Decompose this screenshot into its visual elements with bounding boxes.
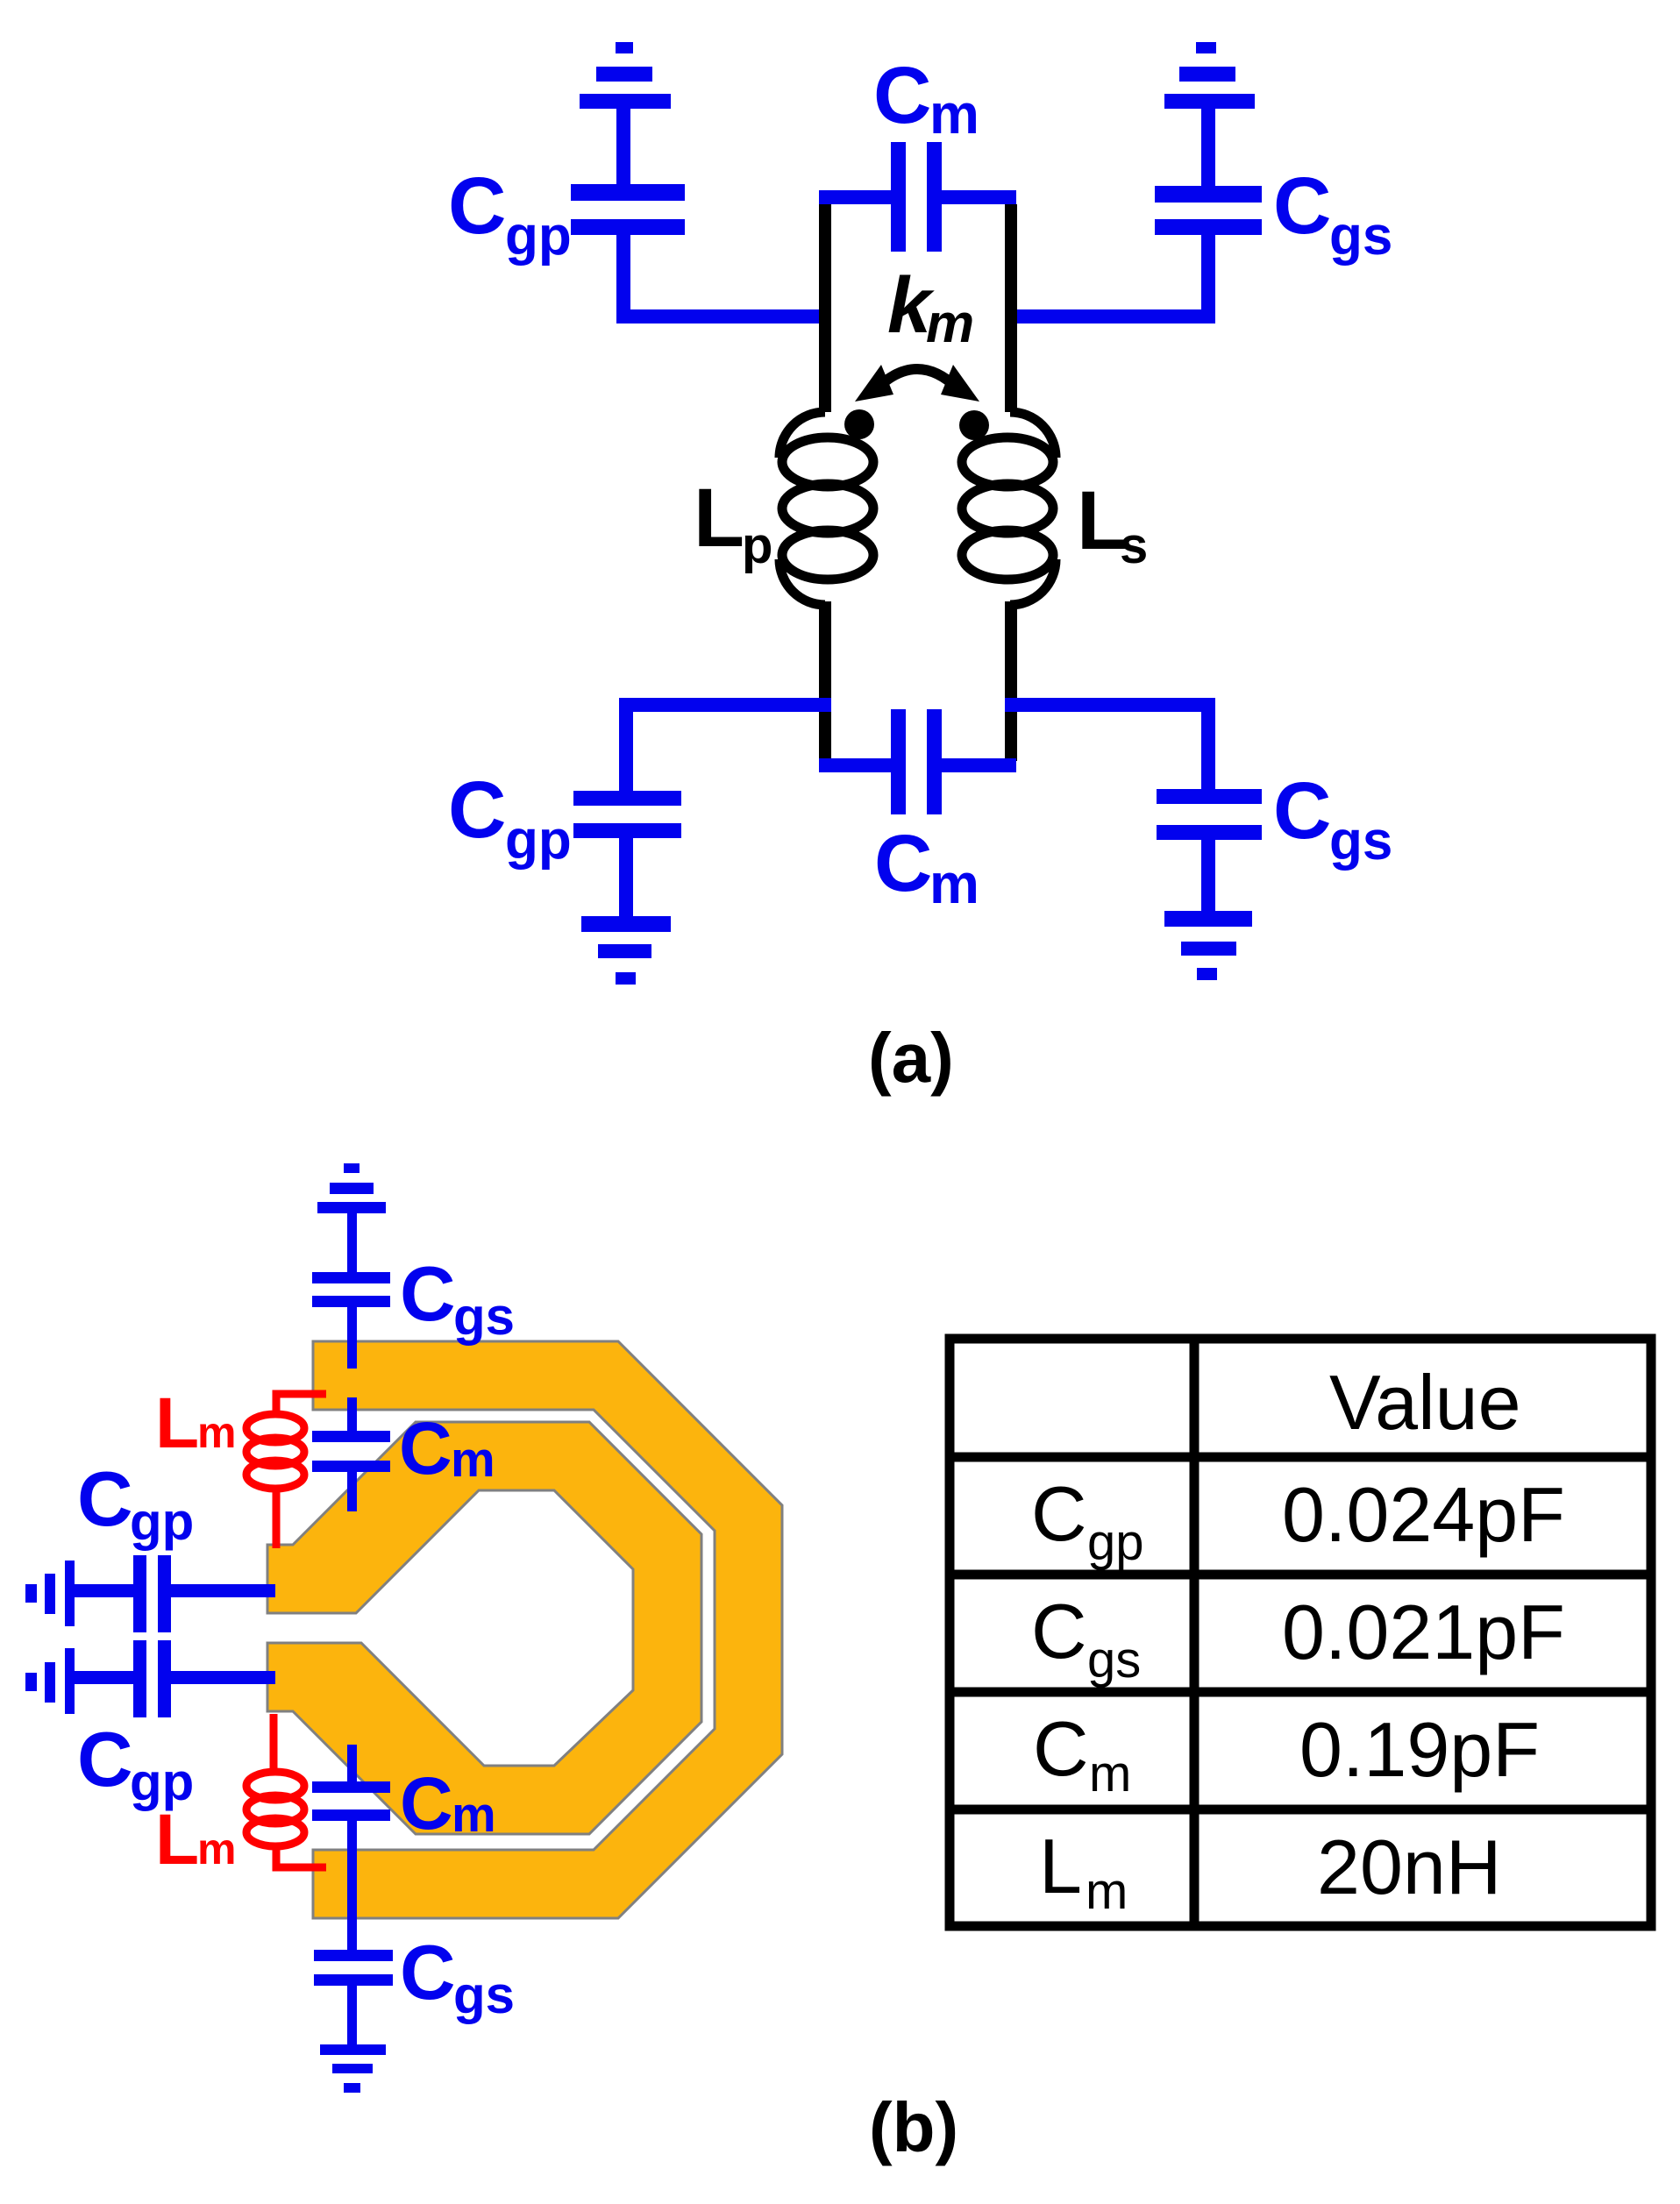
svg-text:m: m — [451, 1432, 495, 1488]
label Lp — [694, 472, 772, 574]
capacitor Cgp (bottom-left) — [573, 710, 681, 917]
svg-text:C: C — [874, 819, 932, 908]
svg-text:0.024pF: 0.024pF — [1282, 1471, 1565, 1558]
km coupling arrow — [877, 369, 957, 388]
svg-text:C: C — [1033, 1705, 1089, 1792]
svg-text:C: C — [399, 1407, 452, 1489]
label Cgp (lower, part b) — [77, 1716, 194, 1811]
inductor Lp (primary coil) — [779, 412, 873, 605]
capacitor Cm (bottom) — [819, 709, 1016, 814]
label Cgs (bottom, part b) — [400, 1929, 515, 2024]
svg-text:L: L — [155, 1800, 199, 1880]
svg-text:C: C — [400, 1929, 456, 2016]
svg-text:C: C — [1273, 766, 1331, 856]
svg-text:C: C — [1031, 1588, 1087, 1674]
capacitor Cgs (bottom, part b) — [314, 1885, 393, 2044]
svg-text:s: s — [1120, 517, 1148, 574]
svg-text:gs: gs — [453, 1287, 515, 1346]
svg-text:gp: gp — [130, 1492, 194, 1551]
ground GND7 (left, lower Cgp, part b) — [25, 1648, 75, 1714]
svg-text:(a): (a) — [868, 1019, 954, 1097]
svg-text:m: m — [1089, 1745, 1131, 1802]
capacitor Cgs (top-right) — [1155, 186, 1262, 316]
inductor Ls (secondary coil) — [962, 412, 1056, 605]
label Cgs (top-right) — [1273, 161, 1392, 267]
table of values — [950, 1339, 1651, 1926]
svg-text:gs: gs — [1329, 206, 1392, 267]
svg-text:m: m — [197, 1824, 236, 1873]
label Lm (top, red) — [155, 1383, 236, 1463]
svg-text:C: C — [77, 1455, 133, 1542]
table row Cgs — [1031, 1588, 1565, 1689]
label Cgp (upper, part b) — [77, 1455, 194, 1551]
table row Cm — [1033, 1705, 1540, 1802]
svg-text:m: m — [197, 1408, 236, 1457]
ground GND4 (below Cgs bottom-right) — [1164, 911, 1252, 980]
ground GND6 (left, upper Cgp, part b) — [25, 1561, 75, 1626]
label Cm (top, part b) — [399, 1407, 495, 1489]
winding primary (inner orange ring with arms) — [267, 1422, 701, 1834]
svg-text:m: m — [452, 1787, 496, 1843]
capacitor Cgs (top, part b) — [312, 1272, 390, 1369]
svg-text:L: L — [1039, 1823, 1082, 1909]
svg-text:gs: gs — [453, 1966, 515, 2024]
svg-text:L: L — [694, 472, 744, 565]
capacitor Cm (top, part b) — [312, 1397, 390, 1511]
wire top-left node — [616, 309, 831, 323]
label Cm (bottom, part b) — [400, 1762, 496, 1845]
wire bottom-left node — [619, 698, 831, 712]
svg-text:(b): (b) — [869, 2088, 958, 2166]
svg-text:C: C — [77, 1716, 133, 1802]
svg-text:C: C — [400, 1762, 453, 1845]
svg-text:C: C — [1031, 1470, 1087, 1557]
capacitor Cm (bottom, part b) — [312, 1745, 390, 1885]
svg-text:C: C — [448, 765, 506, 855]
wire top-right node — [1005, 309, 1215, 323]
dot marker primary — [844, 409, 874, 439]
svg-text:gs: gs — [1329, 811, 1392, 871]
ground GND8 (below Cgs bottom, part b) — [320, 2044, 386, 2093]
capacitor Cgp (lower, part b) — [75, 1640, 275, 1717]
label Cm (top) — [873, 51, 979, 146]
capacitor Cm (top) — [819, 142, 1016, 252]
svg-text:gp: gp — [1087, 1514, 1144, 1571]
label Lm (bottom, red) — [155, 1800, 236, 1880]
wire bottom-right node — [1005, 698, 1215, 712]
label Cm (bottom) — [874, 819, 979, 915]
label Cgp (top-left) — [448, 161, 572, 267]
dot marker secondary — [959, 410, 989, 440]
inductor Lm (bottom, red) — [246, 1714, 326, 1867]
svg-text:Value: Value — [1329, 1359, 1521, 1446]
svg-text:C: C — [1273, 161, 1331, 251]
svg-text:m: m — [929, 852, 979, 915]
svg-text:0.19pF: 0.19pF — [1299, 1706, 1540, 1793]
label km (coupling) — [887, 262, 974, 354]
svg-text:gp: gp — [505, 206, 572, 267]
svg-text:m: m — [929, 82, 979, 146]
svg-text:p: p — [742, 517, 772, 574]
winding secondary (outer orange ring) — [313, 1341, 782, 1918]
svg-text:m: m — [1086, 1863, 1128, 1920]
label Cgs (top, part b) — [400, 1250, 515, 1346]
wire transformer left vertical — [819, 204, 831, 412]
ground GND3 (below Cgp bottom-left) — [581, 916, 671, 985]
ground GND1 (inverted, above Cgp top-left) — [580, 42, 671, 186]
svg-text:gs: gs — [1087, 1632, 1141, 1689]
capacitor Cgs (bottom-right) — [1157, 710, 1262, 912]
svg-text:C: C — [448, 161, 506, 251]
capacitor Cgp (upper, part b) — [75, 1555, 275, 1632]
ground GND5 (inverted, above Cgs top, part b) — [317, 1163, 386, 1272]
label Cgs (bottom-right) — [1273, 766, 1392, 871]
label Ls — [1077, 474, 1148, 574]
wire transformer right vertical — [1005, 204, 1017, 412]
svg-text:C: C — [873, 51, 931, 140]
inductor Lm (top, red) — [246, 1394, 326, 1548]
svg-text:0.021pF: 0.021pF — [1282, 1589, 1565, 1675]
svg-text:C: C — [400, 1250, 456, 1337]
svg-text:L: L — [155, 1383, 199, 1463]
capacitor Cgp (top-left) — [571, 184, 685, 316]
table row Cgp — [1031, 1470, 1565, 1571]
table row Lm — [1039, 1823, 1501, 1920]
svg-text:gp: gp — [505, 810, 572, 871]
label Cgp (bottom-left) — [448, 765, 572, 871]
svg-text:m: m — [926, 294, 974, 354]
ground GND2 (inverted, above Cgs top-right) — [1164, 42, 1255, 186]
svg-text:20nH: 20nH — [1317, 1824, 1501, 1910]
